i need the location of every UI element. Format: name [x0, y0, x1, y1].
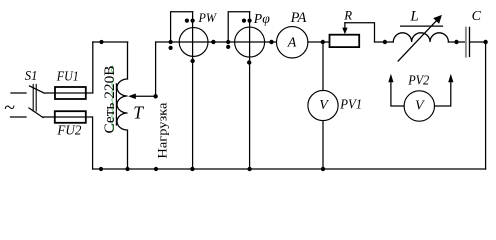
svg-text:FU1: FU1: [56, 68, 79, 83]
node before C: [454, 40, 458, 44]
node before PA: [269, 40, 273, 44]
node R output: [383, 40, 387, 44]
wire PA to R: [308, 41, 330, 43]
voltmeter PV2 circle: [404, 91, 434, 121]
svg-text:R: R: [343, 8, 352, 22]
fuse FU2: [55, 111, 86, 123]
wire main top bus: [156, 41, 276, 43]
node load bottom terminal: [154, 167, 158, 171]
node after PW: [211, 40, 215, 44]
wire C to right edge: [470, 41, 486, 43]
svg-text:PV2: PV2: [407, 73, 429, 88]
svg-text:V: V: [319, 98, 329, 113]
wire L to C: [448, 41, 465, 43]
voltmeter PV2 left probe lead: [388, 74, 404, 106]
capacitor C plates: [466, 27, 470, 56]
wattmeter PW voltage bracket: [171, 12, 193, 42]
switch S1 blade top pole: [30, 86, 45, 93]
wire tap riser: [155, 42, 157, 96]
wattmeter PW vertical coil line: [192, 12, 194, 169]
node PW lower terminal dot: [190, 59, 194, 63]
svg-text:T: T: [133, 103, 144, 123]
resistor R wiper arrow: [342, 23, 347, 35]
node PW bracket junction: [169, 40, 173, 44]
wire bottom bus: [93, 168, 486, 170]
transformer T winding: [117, 42, 127, 169]
AC source terminal stub top: [11, 92, 26, 94]
wire R to L: [375, 41, 394, 43]
svg-text:~: ~: [4, 97, 15, 119]
voltmeter PV2 right probe lead: [435, 74, 454, 106]
inductor L variable arrow: [398, 15, 442, 61]
node PA right junction: [321, 40, 325, 44]
wire FU2 output drop: [86, 117, 93, 169]
grammar squiggle along text: [111, 66, 113, 130]
node Pφ bottom junction: [247, 167, 251, 171]
wire FU1 output riser: [86, 42, 93, 93]
node primary top terminal: [99, 40, 103, 44]
svg-text:Pφ: Pφ: [253, 11, 271, 26]
voltmeter PV1 branch wire bottom: [322, 121, 324, 169]
node top right corner: [483, 40, 487, 44]
node PV1 bottom junction: [321, 167, 325, 171]
wire FU1 through-line: [55, 92, 86, 94]
switch S1 linkage bar: [33, 85, 36, 112]
svg-text:PA: PA: [290, 10, 307, 26]
resistor R body: [330, 35, 360, 47]
wire stub to FU1: [44, 92, 55, 94]
AC source terminal stub bottom: [11, 116, 27, 118]
voltmeter PV1 branch wire top: [322, 42, 324, 91]
svg-text:A: A: [287, 36, 297, 51]
transformer T core: [115, 84, 117, 125]
node PW polarity dot: [169, 46, 173, 50]
node Pφ bracket junction: [226, 40, 230, 44]
svg-text:V: V: [415, 99, 425, 114]
switch S1 blade bottom pole: [29, 108, 43, 118]
node Pφ top polarity dots: [242, 19, 246, 23]
svg-text:Сеть 220В: Сеть 220В: [102, 66, 118, 134]
ammeter PA circle: [277, 27, 308, 58]
node winding bottom junction: [125, 167, 129, 171]
resistor R wiper bracket: [345, 23, 375, 42]
node PW top polarity dots: [185, 19, 189, 23]
inductor L coil: [393, 33, 448, 42]
transformer T tap arrow: [128, 94, 155, 100]
node primary bottom terminal: [99, 167, 103, 171]
svg-text:Нагрузка: Нагрузка: [155, 102, 169, 159]
wire right edge: [485, 42, 487, 169]
inductor L core line: [401, 25, 443, 27]
svg-text:PV1: PV1: [339, 98, 362, 113]
phase meter Pφ circle: [235, 27, 265, 57]
wire primary top: [93, 41, 128, 43]
svg-text:L: L: [409, 8, 418, 24]
svg-text:S1: S1: [25, 69, 38, 84]
wire stub to FU2: [43, 116, 55, 118]
voltmeter PV1 circle: [308, 90, 338, 120]
node Pφ lower terminal dot: [247, 60, 251, 64]
node PW bottom junction: [190, 167, 194, 171]
wire FU2 through-line: [55, 116, 86, 118]
svg-text:PW: PW: [198, 10, 218, 25]
svg-text:C: C: [472, 9, 482, 24]
wattmeter PW circle: [179, 28, 208, 57]
node tap junction: [153, 94, 157, 98]
phase meter Pφ vertical coil line: [249, 12, 251, 169]
fuse FU1: [55, 87, 86, 99]
node Pφ polarity dot: [226, 45, 230, 49]
phase meter Pφ voltage bracket: [228, 12, 249, 42]
svg-text:FU2: FU2: [56, 122, 81, 137]
